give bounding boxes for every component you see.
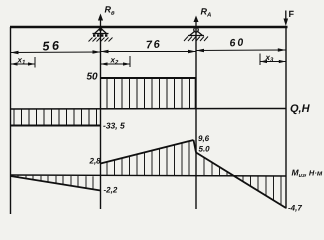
svg-text:-33, 5: -33, 5	[103, 121, 125, 131]
svg-text:-2,2: -2,2	[104, 186, 118, 195]
svg-text:-4,7: -4,7	[288, 204, 302, 213]
svg-text:60: 60	[229, 36, 245, 49]
svg-text:2,8: 2,8	[89, 157, 102, 166]
svg-text:76: 76	[146, 38, 162, 51]
svg-text:9,6: 9,6	[198, 134, 210, 143]
svg-text:56: 56	[42, 38, 62, 53]
svg-text:Mиз, Н·м: Mиз, Н·м	[292, 168, 323, 180]
svg-text:50: 50	[87, 72, 99, 83]
svg-text:Q,Н: Q,Н	[290, 103, 311, 115]
svg-text:5.0: 5.0	[199, 145, 211, 154]
svg-text:F: F	[289, 9, 295, 19]
